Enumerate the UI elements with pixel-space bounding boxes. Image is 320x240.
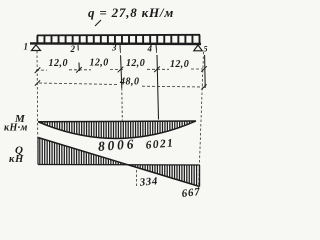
svg-text:12,0: 12,0 [126,58,145,69]
svg-text:2: 2 [70,44,76,54]
svg-text:1: 1 [24,42,29,52]
svg-text:кН: кН [9,154,24,165]
svg-text:кН·м: кН·м [4,123,28,134]
svg-text:334: 334 [138,175,158,189]
svg-text:48,0: 48,0 [119,77,140,88]
svg-text:5: 5 [204,45,208,54]
svg-text:q = 27,8 кН/м: q = 27,8 кН/м [88,5,174,20]
svg-text:12,0: 12,0 [170,59,189,70]
svg-text:8006: 8006 [98,136,137,154]
svg-text:12,0: 12,0 [49,58,69,69]
svg-text:3: 3 [111,43,117,53]
svg-text:6021: 6021 [145,137,175,151]
svg-text:4: 4 [147,44,153,54]
svg-text:12,0: 12,0 [90,58,109,69]
svg-text:667: 667 [181,186,201,200]
